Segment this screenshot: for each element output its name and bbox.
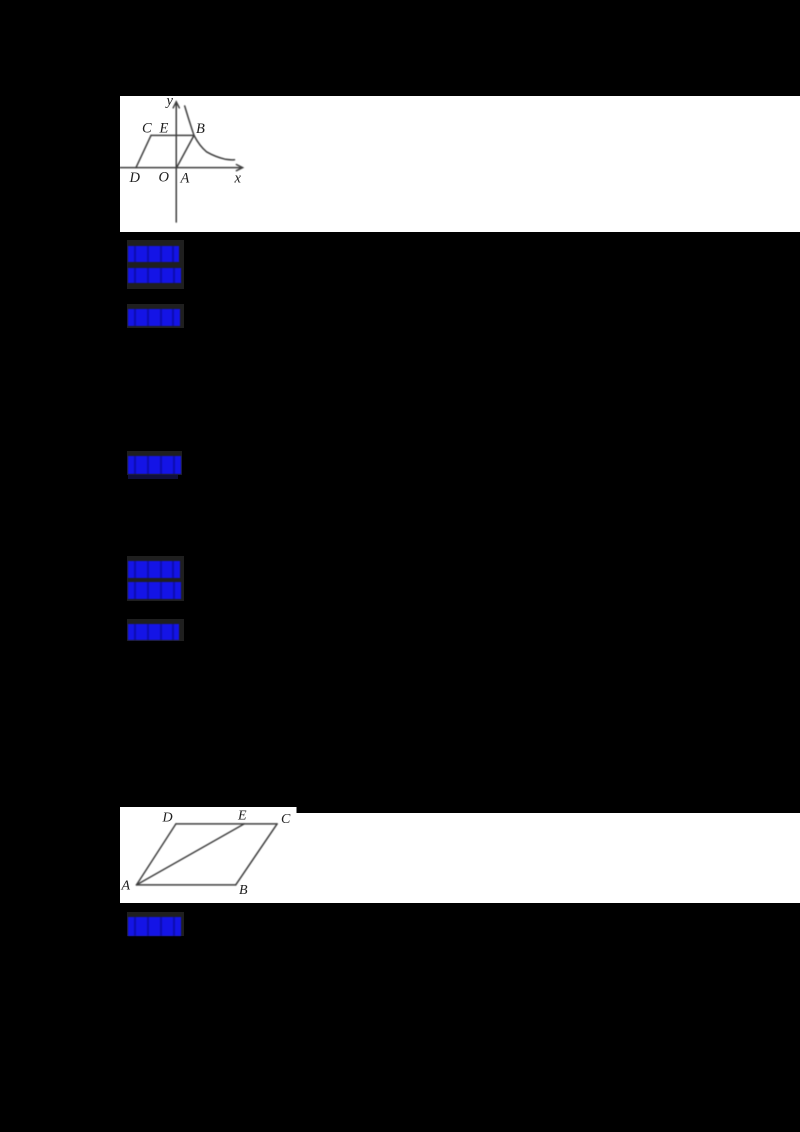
parallelogram side DC	[136, 135, 151, 167]
blue tag 【分析】 #2	[128, 582, 181, 599]
halo behind tag block 1+2	[127, 240, 184, 289]
svg-text:y: y	[165, 96, 174, 109]
y axis arrowhead	[173, 102, 179, 108]
x axis arrowhead	[236, 165, 242, 171]
blue tag 【点评】 #1	[128, 456, 181, 474]
blue tag 【解答】 #1	[128, 309, 180, 326]
side DC	[176, 823, 277, 825]
side BC	[236, 824, 277, 885]
svg-text:A: A	[121, 878, 131, 893]
svg-text:C: C	[281, 812, 291, 827]
svg-text:O: O	[159, 170, 170, 186]
halo behind tag block 3	[127, 304, 184, 328]
svg-text:D: D	[162, 810, 173, 825]
svg-text:E: E	[159, 121, 169, 137]
svg-text:D: D	[129, 170, 141, 186]
svg-text:B: B	[239, 883, 248, 898]
parallelogram side AB	[177, 135, 194, 167]
figure 2: parallelogram ABCD with point E	[120, 807, 800, 903]
white figure box	[120, 807, 297, 903]
blue tag 【解答】 #2	[128, 624, 179, 640]
parallelogram top edge CEB	[151, 134, 194, 136]
white text band	[295, 813, 800, 903]
white background band	[120, 96, 800, 232]
svg-text:x: x	[234, 171, 242, 187]
side AB	[137, 884, 236, 886]
halo behind tag block 7	[127, 619, 184, 641]
halo behind tag block 4	[127, 451, 182, 475]
svg-text:E: E	[237, 808, 247, 823]
x axis	[120, 167, 242, 169]
svg-text:A: A	[180, 171, 190, 187]
figure 1: reciprocal-function coordinate diagram	[120, 96, 800, 232]
halo behind tag block 5+6	[127, 556, 184, 601]
diagonal AE	[137, 824, 245, 885]
faint ghost line under tag 4	[128, 475, 178, 479]
blue tag 【分析】 #1	[128, 268, 181, 284]
halo behind tag block 8	[127, 912, 184, 936]
side AD	[137, 824, 176, 885]
y axis	[175, 104, 177, 223]
blue tag 【点评】 #2	[128, 917, 181, 936]
svg-text:C: C	[142, 121, 152, 137]
blue tag 【考点】 #1	[128, 246, 179, 262]
hyperbola curve through B	[185, 106, 235, 160]
svg-text:B: B	[196, 121, 205, 137]
blue tag 【考点】 #2	[128, 561, 180, 578]
